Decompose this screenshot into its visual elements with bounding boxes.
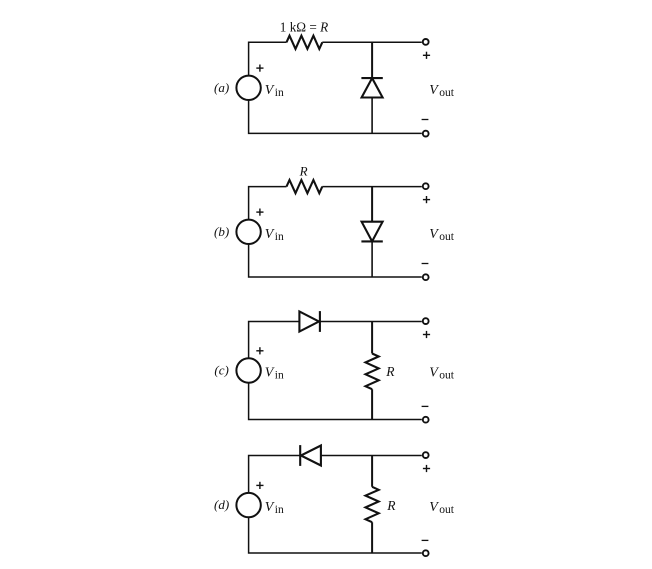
svg-text:V: V bbox=[429, 500, 439, 515]
svg-text:1 kΩ = R: 1 kΩ = R bbox=[280, 19, 328, 34]
svg-text:(b): (b) bbox=[214, 224, 229, 239]
svg-text:R: R bbox=[299, 164, 308, 179]
svg-text:V: V bbox=[265, 366, 275, 381]
svg-text:in: in bbox=[275, 370, 284, 382]
svg-text:R: R bbox=[385, 364, 395, 379]
svg-text:in: in bbox=[275, 504, 284, 516]
svg-text:R: R bbox=[386, 498, 396, 513]
svg-text:out: out bbox=[439, 87, 455, 99]
svg-text:V: V bbox=[265, 227, 275, 242]
svg-text:out: out bbox=[439, 504, 455, 516]
svg-text:V: V bbox=[265, 83, 275, 98]
svg-text:in: in bbox=[275, 87, 284, 99]
svg-text:in: in bbox=[275, 231, 284, 243]
svg-text:out: out bbox=[439, 231, 455, 243]
svg-text:V: V bbox=[429, 366, 439, 381]
svg-text:(d): (d) bbox=[214, 497, 229, 512]
svg-text:V: V bbox=[429, 227, 439, 242]
svg-text:out: out bbox=[439, 370, 455, 382]
svg-text:V: V bbox=[429, 83, 439, 98]
svg-text:V: V bbox=[265, 500, 275, 515]
svg-text:(a): (a) bbox=[214, 80, 229, 95]
svg-text:(c): (c) bbox=[214, 363, 228, 378]
